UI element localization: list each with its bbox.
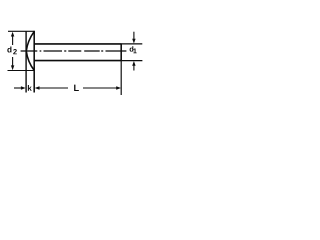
d1 top extension line (121, 43, 142, 45)
d1 dimension lower stem (133, 65, 135, 71)
label L (74, 85, 79, 91)
d1 arrowhead down (tip at shank top) (132, 39, 135, 44)
rivet head dome arc (26, 31, 34, 70)
L dimension line left part (39, 87, 68, 89)
k arrowhead pointing right (21, 86, 26, 89)
label d2 'd' (7, 46, 11, 52)
d2 top extension line (8, 30, 35, 32)
L dimension line right part (83, 87, 118, 89)
d1 dimension upper stem (133, 32, 135, 40)
shank end / L right extension line (120, 43, 122, 61)
k dimension leader line left (14, 87, 22, 89)
label d2 sub '2' (13, 49, 17, 54)
centerline (dash-dot axis) (21, 50, 127, 52)
d2 arrowhead down (11, 65, 14, 70)
shank top edge + d1 top extension (34, 43, 121, 45)
label d1 sub '1' (133, 49, 136, 54)
d2 arrowhead up (11, 32, 14, 37)
d2 bottom extension line (8, 70, 35, 72)
L left arrowhead pointing left (35, 86, 40, 89)
label k (28, 85, 32, 91)
d1 arrowhead up (tip at shank bottom) (132, 61, 135, 66)
shank bottom edge + d1 bottom extension (34, 60, 121, 62)
L right arrowhead pointing right (116, 86, 121, 89)
rivet head flat face / k right extension line (33, 31, 35, 93)
d2 dimension line upper stem (12, 36, 14, 46)
d2 dimension line lower stem (12, 57, 14, 67)
label d1 'd' (130, 46, 134, 51)
d1 bottom extension line (121, 60, 142, 62)
L right extension below shank (120, 61, 122, 95)
rivet head dome tangent / k left extension line (25, 31, 27, 92)
